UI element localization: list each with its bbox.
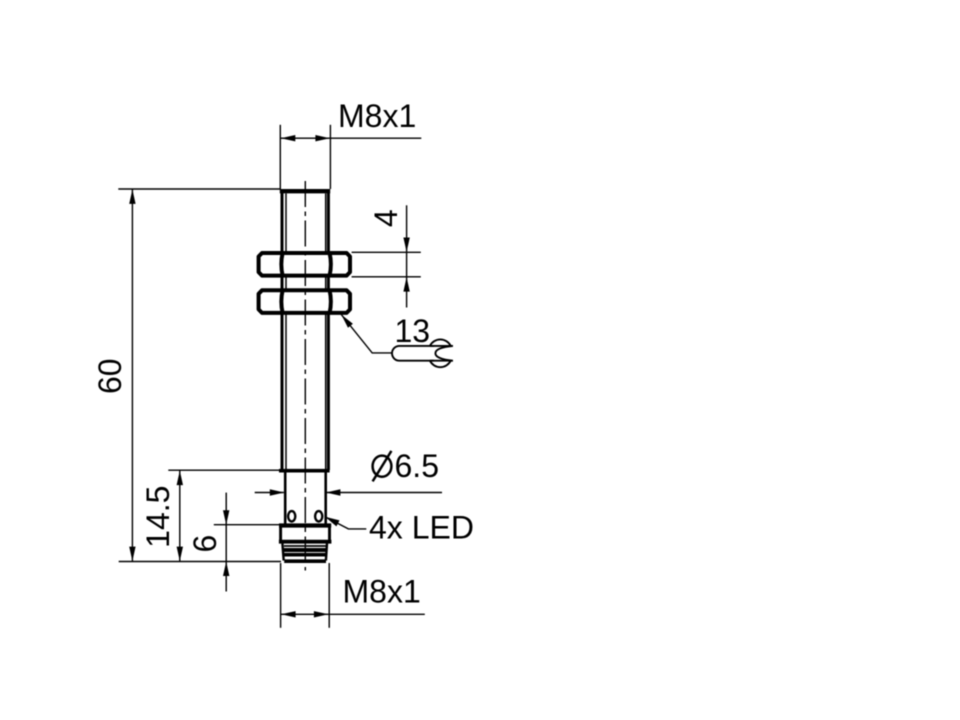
connector block — [281, 528, 330, 541]
dim 6: dimension line — [225, 493, 227, 592]
dim 60: arrow down — [129, 547, 135, 562]
dim M8x1 bottom: dimension line — [281, 613, 425, 615]
tube section dia 6.5 — [285, 471, 326, 524]
dim M8x1 top: arrow right — [315, 135, 330, 141]
leader 4x LED — [325, 517, 366, 529]
dim 60: dimension line — [131, 189, 133, 562]
leader 13 — [341, 315, 392, 353]
dim dia6.5: line right — [326, 492, 442, 494]
svg-text:4: 4 — [368, 209, 404, 227]
dim dia6.5: arrow right-pointing — [270, 489, 285, 495]
hex nut N2 — [259, 290, 350, 313]
dim 14.5: arrow down — [177, 547, 183, 562]
dim 4: extension lines — [352, 252, 421, 276]
dim M8x1 bottom: arrow right — [314, 611, 329, 617]
leader 4x LED arrowhead — [325, 517, 340, 527]
dim 14.5: dimension line — [179, 470, 181, 561]
wrench icon — [392, 339, 453, 367]
shoulder step — [279, 469, 330, 473]
connector flange — [279, 523, 331, 527]
svg-text:M8x1: M8x1 — [343, 574, 421, 610]
LED right — [315, 511, 322, 521]
centerline — [304, 181, 306, 571]
connector lower bar — [279, 540, 332, 544]
svg-text:6.5: 6.5 — [395, 448, 439, 484]
dim dia6.5: arrow left-pointing — [326, 489, 341, 495]
svg-text:14.5: 14.5 — [140, 486, 176, 548]
dim M8x1 bottom: extension lines — [281, 563, 330, 628]
svg-text:13: 13 — [395, 313, 431, 349]
barrel body — [280, 189, 330, 470]
dim 60: datum bottom — [119, 561, 281, 563]
dim 4: dimension line — [406, 205, 408, 307]
LED left — [288, 511, 295, 521]
dim dia6.5: line left — [255, 492, 284, 494]
dim 6: arrow down to top — [223, 510, 229, 525]
dim 6: arrow up to bottom — [223, 562, 229, 577]
svg-text:60: 60 — [92, 358, 128, 394]
dim 4: arrow down — [403, 238, 409, 253]
connector thread plug — [282, 544, 327, 562]
dim 14.5: extension line — [168, 469, 283, 471]
dim 6: extension line — [214, 524, 280, 526]
dim M8x1 bottom: arrow left — [281, 611, 296, 617]
dim M8x1 top: arrow left — [281, 135, 296, 141]
dim 60: arrow up — [129, 189, 135, 204]
dim 60: datum top — [118, 188, 280, 190]
svg-text:M8x1: M8x1 — [338, 98, 416, 134]
dim M8x1 top: dimension line — [280, 137, 421, 139]
label dia 6.5: diameter symbol — [373, 456, 392, 477]
svg-text:4x LED: 4x LED — [369, 510, 474, 546]
hex nut N1 — [259, 253, 350, 276]
leader 13 arrowhead — [341, 315, 353, 328]
svg-text:6: 6 — [187, 535, 223, 553]
dim 14.5: arrow up — [177, 471, 183, 486]
dim 4: arrow up — [403, 277, 409, 292]
dim M8x1 top: extension lines — [280, 125, 330, 189]
